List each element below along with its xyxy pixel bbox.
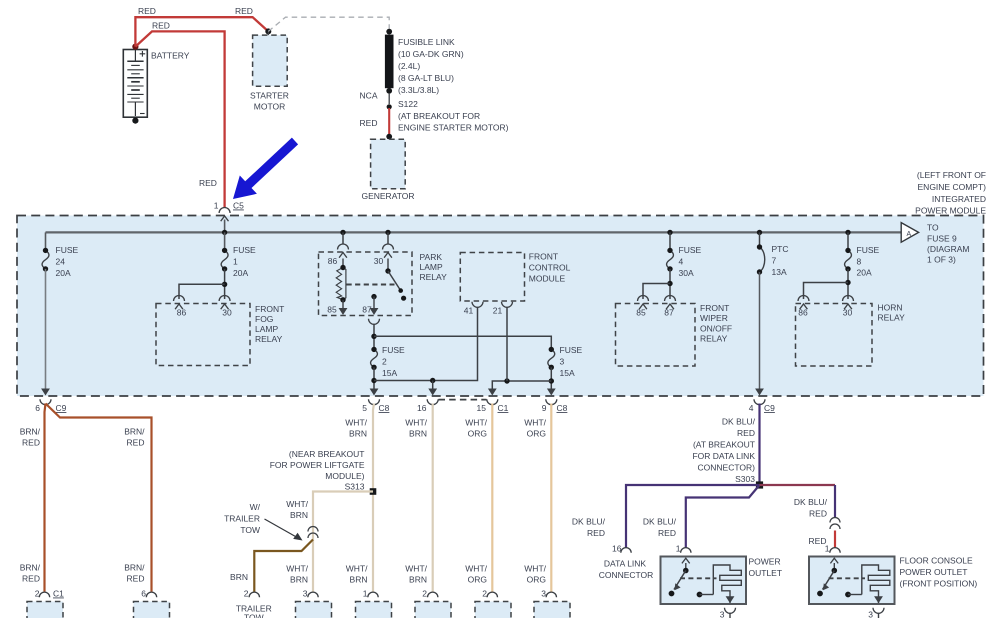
- svg-text:C8: C8: [379, 403, 390, 413]
- svg-text:POWER OUTLET: POWER OUTLET: [900, 567, 968, 577]
- svg-text:ORG: ORG: [527, 575, 546, 585]
- wire RED to floor console outlet: [834, 531, 836, 549]
- svg-text:FUSE: FUSE: [857, 245, 880, 255]
- svg-text:MODULE: MODULE: [529, 274, 566, 284]
- svg-text:RED: RED: [138, 6, 156, 16]
- svg-text:6: 6: [35, 403, 40, 413]
- wire pin 87 to fuse 2: [373, 324, 375, 349]
- svg-text:15A: 15A: [560, 368, 575, 378]
- svg-text:BRN: BRN: [350, 575, 368, 585]
- PTC 7: [760, 247, 765, 272]
- svg-text:1: 1: [233, 257, 238, 267]
- svg-text:RELAY: RELAY: [878, 313, 906, 323]
- wiper relay pin 85 entry: [638, 296, 649, 301]
- svg-text:BATTERY: BATTERY: [151, 51, 190, 61]
- junction pin 21 wire: [504, 378, 509, 383]
- svg-text:(10 GA-DK GRN): (10 GA-DK GRN): [398, 49, 464, 59]
- svg-text:FRONT: FRONT: [700, 303, 729, 313]
- wire fuse 4 to relay: [669, 269, 671, 299]
- wire DK BLU/RED S303 to power outlet: [686, 485, 760, 548]
- park lamp relay: [319, 252, 413, 316]
- svg-text:FUSE: FUSE: [560, 345, 583, 355]
- svg-text:9: 9: [542, 403, 547, 413]
- svg-text:WHT/: WHT/: [524, 564, 546, 574]
- park lamp relay coil: [342, 259, 344, 268]
- inline connector dashes: [439, 399, 487, 401]
- svg-text:2: 2: [35, 589, 40, 599]
- svg-text:3: 3: [868, 610, 873, 618]
- svg-text:ORG: ORG: [468, 429, 487, 439]
- svg-text:3: 3: [720, 610, 725, 618]
- junction wiper relay branch: [667, 281, 672, 286]
- svg-text:5: 5: [362, 403, 367, 413]
- junction horn relay branch: [845, 280, 850, 285]
- park lamp relay pin 87: [371, 294, 376, 299]
- svg-text:7: 7: [772, 256, 777, 266]
- annotation blue arrow pointing at C5: [233, 138, 298, 199]
- svg-text:BRN: BRN: [409, 429, 427, 439]
- svg-text:(AT BREAKOUT: (AT BREAKOUT: [693, 440, 755, 450]
- svg-text:LAMP: LAMP: [255, 324, 278, 334]
- junction exit 16 branch: [430, 378, 435, 383]
- battery B1: [123, 50, 147, 118]
- svg-text:WHT/: WHT/: [286, 564, 308, 574]
- svg-text:3: 3: [560, 357, 565, 367]
- wiper relay pin 87 entry: [665, 296, 676, 301]
- svg-text:3: 3: [303, 589, 308, 599]
- svg-text:FUSE: FUSE: [233, 245, 256, 255]
- wire DK BLU/RED exit4 to S303: [758, 404, 760, 483]
- fuse F8: [845, 250, 852, 269]
- svg-text:LAMP: LAMP: [420, 262, 443, 272]
- svg-text:21: 21: [493, 306, 503, 316]
- svg-text:FUSE: FUSE: [679, 245, 702, 255]
- svg-text:TOW: TOW: [244, 613, 264, 618]
- wire BRN/RED C9-6 split: [45, 404, 46, 592]
- wire RED battery to starter motor: [135, 17, 268, 46]
- wire DK BLU/RED S303 to data link connector: [626, 485, 760, 548]
- svg-text:BRN: BRN: [290, 575, 308, 585]
- svg-text:OUTLET: OUTLET: [749, 568, 783, 578]
- wire fuse2 to FCM pin 41: [374, 308, 478, 381]
- svg-text:TRAILER: TRAILER: [224, 514, 260, 524]
- front fog lamp relay: [156, 304, 250, 366]
- svg-text:86: 86: [798, 308, 808, 318]
- svg-text:WHT/: WHT/: [524, 418, 546, 428]
- svg-text:RED: RED: [658, 528, 676, 538]
- svg-text:C9: C9: [56, 403, 67, 413]
- wire branch to pin 86: [179, 284, 225, 299]
- exit connector 15 C1: [488, 389, 497, 396]
- svg-text:CONNECTOR: CONNECTOR: [599, 570, 654, 580]
- svg-text:ORG: ORG: [527, 429, 546, 439]
- wire WHT/BRN S313 branch to trailer tow connector and terminal 3: [313, 492, 373, 593]
- svg-text:C5: C5: [233, 201, 244, 211]
- wire branch to pin 86: [804, 283, 849, 300]
- junction fuse2 top: [371, 334, 376, 339]
- svg-text:3: 3: [541, 589, 546, 599]
- svg-text:DK BLU/: DK BLU/: [643, 517, 677, 527]
- svg-text:RED: RED: [22, 438, 40, 448]
- svg-text:WHT/: WHT/: [345, 418, 367, 428]
- svg-text:ENGINE COMPT): ENGINE COMPT): [918, 182, 987, 192]
- wire fuse 3 to exit 9 C8: [550, 367, 552, 389]
- wire fuse 1 to relay pins: [224, 269, 226, 299]
- svg-text:STARTER: STARTER: [250, 91, 289, 101]
- wire FCM pin 21 down: [506, 308, 508, 382]
- svg-text:85: 85: [636, 308, 646, 318]
- wire branch to pin 85: [643, 284, 670, 300]
- park lamp relay pin 30 entry: [383, 244, 394, 250]
- exit connector 16: [428, 389, 437, 396]
- park lamp relay linkage dashed: [347, 284, 395, 286]
- svg-text:(AT BREAKOUT FOR: (AT BREAKOUT FOR: [398, 111, 480, 121]
- svg-text:BRN: BRN: [349, 429, 367, 439]
- svg-text:WHT/: WHT/: [465, 564, 487, 574]
- svg-text:86: 86: [328, 256, 338, 266]
- svg-text:FRONT: FRONT: [255, 304, 284, 314]
- svg-text:1: 1: [363, 589, 368, 599]
- svg-text:S313: S313: [345, 482, 365, 492]
- svg-text:(FRONT POSITION): (FRONT POSITION): [900, 579, 978, 589]
- svg-text:FUSE: FUSE: [382, 345, 405, 355]
- svg-text:TO: TO: [927, 223, 939, 233]
- wire fuse 24 to connector C9: [45, 269, 47, 389]
- front fog lamp relay pin 86 entry: [174, 296, 185, 301]
- wire to fuse 3: [374, 336, 551, 349]
- junction fuse3 bottom: [549, 378, 554, 383]
- wire NCA starter motor to fusible link: [268, 17, 389, 31]
- svg-text:CONTROL: CONTROL: [529, 263, 571, 273]
- wire DK BLU/RED S303 right branch: [760, 484, 836, 486]
- svg-text:30A: 30A: [679, 268, 694, 278]
- inline connector DK BLU/RED to RED: [830, 518, 840, 523]
- svg-text:FUSE: FUSE: [56, 245, 79, 255]
- floor console power outlet: [809, 557, 895, 605]
- svg-text:2: 2: [244, 589, 249, 599]
- svg-text:BRN: BRN: [230, 572, 248, 582]
- fuse F24: [42, 250, 49, 269]
- park lamp relay pin 85 arrow: [342, 300, 344, 310]
- splice S303: [756, 481, 763, 488]
- svg-text:FUSE 9: FUSE 9: [927, 233, 957, 243]
- svg-text:POWER: POWER: [749, 557, 781, 567]
- svg-text:BRN/: BRN/: [20, 427, 41, 437]
- svg-text:(DIAGRAM: (DIAGRAM: [927, 244, 970, 254]
- junction bus park relay switch: [385, 230, 390, 235]
- exit connector 4 C9: [755, 389, 764, 396]
- terminal 2 C1: [39, 592, 49, 597]
- wire bus to fuse 4: [669, 232, 671, 250]
- wire fusible link to S122: [388, 93, 390, 104]
- terminal 3 WHT/BRN: [308, 592, 318, 597]
- svg-text:WHT/: WHT/: [286, 499, 308, 509]
- svg-text:RED: RED: [199, 178, 217, 188]
- svg-text:MODULE): MODULE): [325, 471, 364, 481]
- svg-text:1: 1: [825, 544, 830, 554]
- starter motor: [253, 35, 288, 86]
- wire bus to park relay pin 30: [387, 232, 389, 244]
- svg-text:87: 87: [664, 308, 674, 318]
- svg-text:6: 6: [141, 589, 146, 599]
- terminal 2 WHT/ORG: [487, 592, 497, 597]
- svg-text:30: 30: [843, 308, 853, 318]
- FCM pin 41 connector: [472, 302, 483, 308]
- svg-text:RED: RED: [737, 428, 755, 438]
- svg-text:C9: C9: [764, 403, 775, 413]
- svg-text:FLOOR CONSOLE: FLOOR CONSOLE: [900, 556, 974, 566]
- svg-text:(LEFT FRONT OF: (LEFT FRONT OF: [917, 170, 986, 180]
- wire bus to park relay pin 86: [342, 232, 344, 244]
- connector box 2 C1: [27, 602, 63, 618]
- svg-text:WHT/: WHT/: [405, 564, 427, 574]
- fuse F3: [548, 349, 555, 367]
- svg-text:RELAY: RELAY: [700, 334, 728, 344]
- svg-text:C1: C1: [53, 589, 64, 599]
- svg-text:FUSIBLE LINK: FUSIBLE LINK: [398, 37, 455, 47]
- wire RED battery to C5: [135, 31, 224, 207]
- svg-text:W/: W/: [250, 502, 261, 512]
- wire bus to PTC: [759, 232, 761, 247]
- wire BRN trailer tow drop: [254, 540, 313, 593]
- svg-text:RED: RED: [127, 574, 145, 584]
- exit connector 5 C8: [370, 389, 379, 396]
- svg-text:2: 2: [482, 589, 487, 599]
- junction bus fuse 8: [845, 230, 850, 235]
- svg-text:DATA LINK: DATA LINK: [604, 559, 647, 569]
- terminal 2 WHT/BRN: [428, 592, 438, 597]
- wire WHT/ORG exit15 down: [491, 404, 493, 593]
- horn relay pin 86 entry: [798, 296, 809, 301]
- wire fuse 2 to exit 5 C8: [373, 367, 375, 389]
- svg-text:ENGINE STARTER MOTOR): ENGINE STARTER MOTOR): [398, 123, 509, 133]
- svg-text:NCA: NCA: [360, 91, 378, 101]
- terminal 2 trailer tow: [249, 592, 259, 597]
- svg-text:RED: RED: [360, 118, 378, 128]
- svg-text:(8 GA-LT BLU): (8 GA-LT BLU): [398, 73, 454, 83]
- svg-text:20A: 20A: [56, 268, 71, 278]
- svg-text:30: 30: [374, 256, 384, 266]
- svg-text:MOTOR: MOTOR: [254, 102, 285, 112]
- svg-text:WHT/: WHT/: [346, 564, 368, 574]
- connector box 3 WHT/ORG: [534, 602, 570, 618]
- svg-text:87: 87: [362, 305, 372, 315]
- wire PTC to exit 4 C9: [759, 272, 761, 389]
- wire RED S122 to generator: [388, 108, 390, 135]
- svg-text:DK BLU/: DK BLU/: [722, 417, 756, 427]
- svg-text:85: 85: [327, 305, 337, 315]
- svg-text:BRN/: BRN/: [124, 563, 145, 573]
- svg-text:20A: 20A: [233, 268, 248, 278]
- wire fuse 24 drop: [45, 232, 47, 250]
- svg-text:TOW: TOW: [240, 525, 260, 535]
- svg-text:2: 2: [422, 589, 427, 599]
- svg-text:HORN: HORN: [878, 303, 903, 313]
- svg-text:RED: RED: [587, 528, 605, 538]
- svg-text:RED: RED: [235, 6, 253, 16]
- svg-text:1 OF 3): 1 OF 3): [927, 255, 956, 265]
- front wiper on/off relay: [616, 304, 696, 367]
- svg-text:15: 15: [477, 403, 487, 413]
- svg-text:2: 2: [382, 357, 387, 367]
- terminal 6: [146, 592, 156, 597]
- terminal 3 WHT/ORG: [546, 592, 556, 597]
- node starter motor junction: [265, 28, 271, 34]
- svg-text:RED: RED: [809, 509, 827, 519]
- exit connector 9 C8: [547, 389, 556, 396]
- wire WHT/ORG exit9 down: [550, 404, 552, 593]
- svg-text:DK BLU/: DK BLU/: [572, 517, 606, 527]
- generator: [371, 139, 406, 188]
- integrated power module box: [17, 216, 984, 397]
- front control module: [460, 253, 524, 302]
- svg-text:RED: RED: [22, 574, 40, 584]
- park lamp relay pin 86 entry: [338, 244, 349, 250]
- horn relay: [796, 304, 873, 367]
- svg-text:(2.4L): (2.4L): [398, 61, 420, 71]
- fuse F4: [667, 250, 674, 269]
- svg-text:8: 8: [857, 257, 862, 267]
- svg-text:BRN/: BRN/: [20, 563, 41, 573]
- svg-text:BRN: BRN: [290, 510, 308, 520]
- svg-text:RED: RED: [152, 21, 170, 31]
- svg-text:BRN/: BRN/: [124, 427, 145, 437]
- wire WHT/BRN exit16 down: [432, 404, 434, 593]
- svg-text:POWER MODULE: POWER MODULE: [915, 206, 986, 216]
- svg-text:CONNECTOR): CONNECTOR): [698, 463, 756, 473]
- connector box 1: [356, 602, 392, 618]
- park lamp relay switch: [387, 259, 389, 272]
- svg-text:C8: C8: [557, 403, 568, 413]
- svg-text:ON/OFF: ON/OFF: [700, 324, 732, 334]
- svg-text:A: A: [907, 231, 912, 238]
- svg-text:1: 1: [214, 201, 219, 211]
- fusible link: [386, 29, 392, 35]
- connector box 3: [296, 602, 332, 618]
- connector box 2: [415, 602, 451, 618]
- wire fuse 8 to relay: [847, 269, 849, 299]
- svg-text:20A: 20A: [857, 268, 872, 278]
- wire branch to exit 16: [432, 381, 434, 390]
- fuse F2: [371, 349, 378, 367]
- svg-text:S303: S303: [735, 474, 755, 484]
- svg-text:86: 86: [177, 308, 187, 318]
- splice S313: [370, 488, 377, 495]
- annotation arrow to trailer tow connector: [265, 519, 300, 539]
- svg-text:24: 24: [56, 257, 66, 267]
- terminal 1 WHT/BRN: [368, 592, 378, 597]
- svg-text:GENERATOR: GENERATOR: [361, 191, 414, 201]
- svg-text:WHT/: WHT/: [465, 418, 487, 428]
- battery positive terminal: [132, 44, 138, 50]
- svg-text:BRN: BRN: [409, 575, 427, 585]
- junction bus PTC: [757, 230, 762, 235]
- exit connector 6 C9: [41, 389, 50, 396]
- svg-text:WHT/: WHT/: [405, 418, 427, 428]
- node generator terminal: [386, 134, 392, 140]
- svg-text:4: 4: [749, 403, 754, 413]
- svg-text:C1: C1: [498, 403, 509, 413]
- connector box 6: [134, 602, 170, 618]
- svg-text:DK BLU/: DK BLU/: [794, 497, 828, 507]
- svg-text:WIPER: WIPER: [700, 313, 728, 323]
- FCM pin 21 connector: [502, 302, 513, 308]
- junction fog relay branch: [222, 282, 227, 287]
- svg-text:(3.3L/3.8L): (3.3L/3.8L): [398, 85, 439, 95]
- svg-text:FOG: FOG: [255, 314, 273, 324]
- battery negative terminal: [132, 118, 138, 124]
- svg-text:FOR POWER LIFTGATE: FOR POWER LIFTGATE: [270, 460, 365, 470]
- svg-text:PTC: PTC: [772, 244, 789, 254]
- fuse F1: [221, 250, 228, 269]
- svg-text:13A: 13A: [772, 267, 787, 277]
- junction bus park relay coil: [340, 230, 345, 235]
- svg-text:PARK: PARK: [420, 252, 443, 262]
- wire fuse3 to exit 15 C1: [492, 381, 551, 389]
- svg-text:INTEGRATED: INTEGRATED: [932, 194, 986, 204]
- svg-text:15A: 15A: [382, 368, 397, 378]
- svg-text:RED: RED: [127, 438, 145, 448]
- wire WHT/BRN exit5 to S313 to terminal 1: [373, 404, 374, 593]
- bus wire B+ inside IPM: [46, 231, 902, 233]
- junction bus fuse 4: [667, 230, 672, 235]
- inline connector w/ trailer tow: [308, 527, 318, 532]
- svg-text:S122: S122: [398, 99, 418, 109]
- svg-text:RELAY: RELAY: [255, 334, 283, 344]
- junction bus at C5: [222, 230, 227, 235]
- horn relay pin 30 entry: [843, 296, 854, 301]
- svg-text:RELAY: RELAY: [420, 272, 448, 282]
- svg-text:16: 16: [417, 403, 427, 413]
- arrow A to fuse 9: [901, 223, 918, 243]
- junction fuse2 bottom: [371, 378, 376, 383]
- front fog lamp relay pin 30 entry: [219, 296, 230, 301]
- wire bus to fuse 1: [224, 232, 226, 250]
- connector box 2 WHT/ORG: [475, 602, 511, 618]
- svg-text:ORG: ORG: [468, 575, 487, 585]
- svg-text:FOR DATA LINK: FOR DATA LINK: [692, 451, 755, 461]
- svg-text:30: 30: [222, 308, 232, 318]
- svg-text:FRONT: FRONT: [529, 252, 558, 262]
- wire C5 to bus: [224, 220, 226, 233]
- wire bus to fuse 8: [847, 232, 849, 250]
- svg-text:41: 41: [464, 306, 474, 316]
- park lamp relay pin 87 exit connector: [369, 319, 380, 325]
- svg-text:(NEAR BREAKOUT: (NEAR BREAKOUT: [289, 449, 365, 459]
- svg-text:4: 4: [679, 257, 684, 267]
- power outlet: [661, 557, 747, 605]
- splice S122: [387, 104, 392, 109]
